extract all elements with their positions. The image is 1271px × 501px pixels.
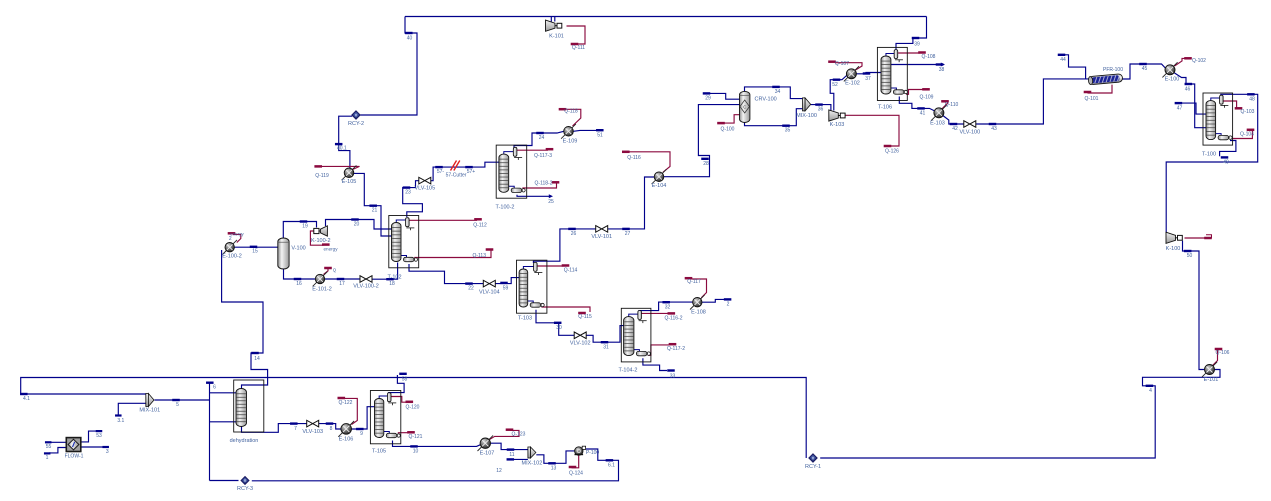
svg-text:Q-115: Q-115 — [578, 314, 592, 320]
svg-text:VLV-100-2: VLV-100-2 — [353, 284, 379, 290]
svg-text:E-101-2: E-101-2 — [312, 287, 332, 293]
svg-text:P-100: P-100 — [586, 450, 600, 456]
column dehydration — [234, 380, 264, 432]
heat-exchanger E-105 — [342, 165, 357, 180]
node 3.1 — [115, 414, 122, 416]
valve VLV-101 — [596, 226, 608, 233]
wire stream 45 PFR-100 to E-100 — [1122, 64, 1165, 79]
wire stream 37 E-102 to T-106 — [856, 73, 881, 74]
svg-text:E-100-2: E-100-2 — [222, 254, 242, 260]
svg-text:Q: Q — [333, 268, 337, 273]
svg-text:Q-101: Q-101 — [1085, 96, 1099, 102]
node 6 — [206, 382, 214, 384]
svg-text:11: 11 — [509, 452, 514, 458]
wire stream 31 VLV-102 to T-104-2 — [585, 326, 624, 343]
node 45 — [1139, 63, 1147, 65]
svg-text:9: 9 — [360, 431, 363, 437]
energy Q-117-2 T-104-2 reboiler — [648, 345, 669, 355]
svg-text:K-100: K-100 — [1166, 246, 1181, 252]
svg-text:dehydration: dehydration — [230, 438, 259, 444]
node 52 — [833, 79, 841, 81]
svg-text:Q-104: Q-104 — [1240, 131, 1254, 137]
mixer MIX-101 — [146, 394, 149, 407]
svg-text:Q-123: Q-123 — [512, 432, 526, 438]
heat-exchanger E-103 — [931, 105, 946, 120]
svg-text:Q-116-2: Q-116-2 — [665, 316, 683, 322]
node 16 — [294, 278, 302, 280]
node 42 — [950, 123, 958, 125]
svg-text:K-103: K-103 — [830, 122, 845, 128]
svg-text:30: 30 — [556, 325, 562, 331]
wire stream 38 T-106 side product — [891, 64, 943, 66]
svg-text:32: 32 — [665, 304, 671, 310]
wire stream 1 feed stub — [49, 448, 66, 453]
svg-text:1: 1 — [46, 455, 49, 461]
wire stream 47 feed to T-100 — [1182, 103, 1207, 114]
svg-text:K-100-2: K-100-2 — [311, 238, 331, 244]
node 21 — [369, 205, 377, 207]
svg-text:VLV-103: VLV-103 — [302, 429, 323, 435]
svg-text:T-100: T-100 — [1202, 151, 1216, 157]
energy Q-119 E-105 — [322, 166, 360, 170]
node 26 — [568, 228, 576, 230]
svg-text:MIX-102: MIX-102 — [522, 461, 543, 467]
svg-text:2: 2 — [727, 301, 730, 307]
svg-text:33: 33 — [670, 374, 676, 380]
mixer MIX-100 — [803, 98, 806, 111]
svg-text:E-102: E-102 — [845, 81, 860, 87]
svg-text:Q-106: Q-106 — [1216, 350, 1230, 356]
wire stream 41 T-106 bottoms to E-103 — [899, 97, 935, 112]
node 10 — [410, 445, 418, 447]
wire stream 52 K-103 to E-102 — [830, 76, 846, 111]
energy Q-111 K-101 — [567, 26, 586, 44]
node 5 — [172, 399, 180, 401]
svg-text:50: 50 — [1187, 253, 1193, 259]
svg-text:Q-107: Q-107 — [835, 61, 849, 67]
energy Q-100 CRV-100 — [724, 115, 740, 123]
wire stream 55 feed stub — [50, 441, 66, 443]
wire RCY-3 outlet — [210, 480, 239, 482]
node 51 — [596, 129, 604, 131]
svg-text:22: 22 — [468, 286, 474, 292]
svg-text:E-107: E-107 — [480, 451, 495, 457]
svg-text:RCY-2: RCY-2 — [348, 121, 364, 127]
energy Q-103 T-100 condenser — [1223, 101, 1237, 109]
svg-text:E-108: E-108 — [691, 310, 706, 316]
wire stream 11 E-107 to MIX-102 — [491, 443, 528, 449]
column T-104-2 — [621, 308, 651, 362]
svg-text:Q-102: Q-102 — [1192, 58, 1206, 64]
svg-text:43: 43 — [991, 126, 997, 132]
svg-text:18: 18 — [389, 281, 395, 287]
wire stream 28 E-104 to CRV-100 — [664, 105, 740, 177]
wire stream 59 VLV-104 to T-103 — [495, 278, 520, 284]
energy Q-124 P-100 — [572, 456, 579, 468]
svg-text:Q-103: Q-103 — [1241, 109, 1255, 115]
wire stream 4 E-101 to RCY-1 — [820, 370, 1220, 459]
node 40 — [405, 32, 413, 34]
column T-105 — [370, 391, 400, 444]
svg-text:48: 48 — [1249, 97, 1255, 103]
svg-text:Q-109: Q-109 — [920, 95, 934, 101]
wire stream 29 feed to CRV-100 — [708, 93, 740, 99]
energy Q-118 E-109 — [567, 109, 581, 126]
wire stream 17 E-101-2 to VLV-100-2 — [325, 278, 361, 280]
svg-text:Q-119: Q-119 — [315, 173, 329, 179]
wire stream 23 T-102 overhead to VLV-105 — [403, 181, 423, 217]
svg-text:E-104: E-104 — [652, 183, 667, 189]
energy Q-117-3 T-100-2 condenser — [516, 149, 548, 151]
energy Q-110 E-103 — [942, 102, 948, 109]
wire stream 48 T-100 overhead to K-100 — [1166, 94, 1258, 233]
node 44 — [1058, 54, 1066, 56]
valve VLV-100 — [964, 121, 976, 128]
column T-100 — [1203, 93, 1233, 145]
energy flag K-100 — [1185, 237, 1207, 239]
svg-text:Q-117: Q-117 — [687, 279, 701, 285]
wire stream 10 T-105 bottoms to E-107 — [393, 441, 481, 447]
svg-text:CRV-100: CRV-100 — [755, 97, 777, 103]
svg-text:36: 36 — [818, 107, 824, 113]
energy stream 2 E-100-2 — [233, 234, 241, 242]
svg-text:46: 46 — [1185, 87, 1191, 93]
svg-text:57+: 57+ — [467, 169, 476, 175]
node 12 — [507, 458, 515, 460]
svg-text:Q-124: Q-124 — [569, 471, 583, 477]
node 33 — [667, 369, 675, 371]
svg-text:T-100-2: T-100-2 — [496, 205, 515, 211]
node 20 — [351, 218, 359, 220]
svg-text:19: 19 — [302, 223, 308, 229]
svg-text:53: 53 — [96, 433, 102, 439]
energy Q-107 E-102 — [835, 63, 862, 70]
svg-text:E-103: E-103 — [930, 121, 945, 127]
node 50 — [1184, 250, 1192, 252]
svg-text:Q-120: Q-120 — [406, 405, 420, 411]
wire stream 2 E-108 outlet — [702, 299, 725, 302]
svg-text:Q-113: Q-113 — [472, 253, 486, 259]
svg-text:2: 2 — [229, 236, 232, 242]
svg-text:23: 23 — [405, 190, 411, 196]
wire E-105 outlet 21 to T-102 — [354, 173, 393, 236]
wire stream 16 V-100 to E-101-2 — [284, 268, 316, 279]
energy Q-109 T-106 reboiler — [906, 90, 925, 95]
svg-text:E-106: E-106 — [339, 437, 354, 443]
svg-text:E-109: E-109 — [563, 139, 578, 145]
wire streams 57- 57+ VLV-105 to T-100-2 — [430, 162, 499, 181]
svg-text:21: 21 — [372, 208, 378, 214]
svg-text:R: R — [244, 479, 247, 483]
wire stream 19 V-100 to K-100-2 — [283, 222, 316, 239]
pump P-100 — [575, 447, 583, 455]
node 40.1 — [335, 143, 343, 145]
svg-text:VLV-104: VLV-104 — [479, 289, 500, 295]
svg-text:14: 14 — [254, 356, 260, 362]
energy Q-102 E-100 — [1175, 58, 1185, 66]
svg-text:15: 15 — [252, 249, 258, 255]
energy Q-126 K-103 — [844, 115, 900, 146]
wire stream 25 T-100-2 bottoms — [517, 195, 550, 197]
svg-text:44: 44 — [1060, 57, 1066, 63]
heat-exchanger E-107 — [478, 435, 494, 451]
energy Q-106 E-101 — [1212, 350, 1217, 366]
node 47 — [1175, 102, 1183, 104]
node 38 — [936, 63, 944, 65]
energy Q-117 E-108 — [692, 279, 707, 298]
energy Q-118-2 T-100-2 reboiler — [522, 184, 556, 189]
svg-text:VLV-101: VLV-101 — [591, 234, 612, 240]
wire stream 33 T-104-2 bottoms product — [643, 358, 667, 370]
svg-text:3.1: 3.1 — [117, 418, 124, 424]
svg-text:R: R — [812, 457, 815, 461]
svg-text:V-100: V-100 — [291, 246, 305, 252]
wire RCY-2 outlet 40.1 to E-105 — [339, 116, 353, 168]
svg-text:E-100: E-100 — [1165, 76, 1180, 82]
node 1 — [44, 452, 51, 454]
svg-text:13: 13 — [551, 466, 557, 472]
svg-text:45: 45 — [1142, 66, 1148, 72]
wire stream 53 product stub — [81, 431, 98, 442]
heat-exchanger E-100 — [1162, 62, 1177, 77]
node 19 — [300, 220, 308, 222]
svg-text:26: 26 — [571, 231, 577, 237]
wire stream 40 top run K-101 to RCY-2 — [405, 16, 927, 18]
svg-text:52: 52 — [832, 82, 838, 88]
svg-text:Q-121: Q-121 — [409, 434, 423, 440]
wire stream 34 CRV-100 top to MIX-100 — [745, 87, 803, 99]
node 18 — [386, 278, 394, 280]
svg-text:Q-126: Q-126 — [885, 148, 899, 154]
node 27 — [622, 228, 630, 230]
wire stream 51 E-109 outlet — [573, 129, 601, 132]
node 57- — [435, 166, 443, 168]
node 2 — [724, 298, 732, 300]
node 8 — [326, 422, 334, 424]
valve VLV-104 — [483, 280, 495, 287]
svg-text:T-102: T-102 — [387, 274, 401, 280]
svg-text:47: 47 — [1177, 105, 1183, 111]
wire stream 27 VLV-101 to E-104 — [607, 177, 654, 229]
compressor K-101 — [546, 20, 556, 31]
node 55 — [45, 441, 52, 443]
heat-exchanger E-101 — [1202, 362, 1217, 377]
wire stream 3.1 feed to MIX-101 — [118, 403, 145, 415]
heat-exchanger E-108 — [690, 295, 705, 310]
reactor PFR-100 — [1088, 74, 1123, 85]
svg-text:10: 10 — [413, 449, 419, 455]
node 4 — [1146, 385, 1154, 387]
wire stream 30 T-103 bottoms to VLV-102 — [536, 310, 575, 336]
svg-text:Q-108: Q-108 — [922, 54, 936, 60]
node 23 — [403, 186, 411, 188]
heat-exchanger E-101-2 — [313, 272, 328, 287]
wire stream 46 E-100 to T-100 — [1174, 73, 1207, 128]
wire stream 15 E-100-2 to V-100 — [234, 246, 278, 248]
node 34 — [772, 86, 780, 88]
column T-103 — [517, 260, 547, 313]
svg-text:28: 28 — [703, 161, 709, 167]
node 9 — [356, 428, 364, 430]
svg-text:E-105: E-105 — [342, 179, 357, 185]
svg-text:T-104-2: T-104-2 — [619, 368, 638, 374]
energy Q-121 T-105 reboiler — [398, 432, 409, 434]
svg-text:25: 25 — [548, 199, 554, 205]
column T-100-2 — [496, 145, 527, 198]
wire stream 4.1 RCY-1 to MIX-101 — [21, 378, 807, 459]
node 39 — [912, 37, 920, 39]
energy Q-122 E-106 — [343, 398, 357, 424]
wire stream 39 into T-106 condenser — [896, 17, 927, 50]
wire stream 14 dehydration overhead to E-100-2 — [222, 250, 268, 390]
svg-text:Q-118-2: Q-118-2 — [535, 181, 553, 187]
energy Q-120 T-105 condenser — [391, 397, 407, 403]
svg-text:K-101: K-101 — [549, 34, 564, 40]
node 28 — [701, 158, 709, 160]
svg-text:Q-116: Q-116 — [627, 155, 641, 161]
wire stream 6.1 P-100 to RCY-3 — [252, 449, 619, 481]
svg-text:Q-100: Q-100 — [721, 126, 735, 132]
svg-text:35: 35 — [785, 128, 791, 134]
svg-text:40: 40 — [407, 36, 413, 42]
node 58 — [399, 373, 407, 375]
compressor K-100-2 — [314, 228, 319, 233]
energy Q-104 T-100 reboiler — [1230, 131, 1253, 139]
energy Q-116-2 T-104-2 condenser — [641, 312, 668, 314]
svg-text:24: 24 — [539, 135, 545, 141]
energy Q-116 E-104 — [629, 152, 670, 172]
svg-text:5: 5 — [176, 402, 179, 408]
mixer MIX-102 — [528, 447, 531, 458]
svg-text:29: 29 — [705, 95, 711, 101]
node 35 — [782, 125, 790, 127]
node 53 — [96, 430, 103, 432]
svg-text:PFR-100: PFR-100 — [1103, 67, 1123, 73]
node 15 — [250, 246, 258, 248]
svg-text:FLOW-1: FLOW-1 — [65, 453, 84, 459]
wire stream 6 dehydration vertical and feeds — [210, 383, 237, 481]
wire stream 5 MIX-101 to dehydration — [155, 399, 210, 401]
svg-text:40.1: 40.1 — [337, 146, 347, 152]
node 29 — [703, 92, 711, 94]
wire stream 3 product stub — [81, 446, 104, 448]
svg-text:VLV-100: VLV-100 — [959, 129, 980, 135]
svg-text:Q-114: Q-114 — [564, 267, 578, 273]
svg-text:Q-122: Q-122 — [339, 400, 353, 406]
heat-exchanger E-102 — [844, 66, 859, 81]
svg-text:T-103: T-103 — [518, 316, 532, 322]
node 3 — [102, 446, 109, 448]
valve VLV-103 — [307, 420, 319, 427]
node 37 — [863, 72, 871, 74]
node 43 — [989, 123, 997, 125]
svg-text:57-Cutter: 57-Cutter — [446, 173, 467, 179]
svg-text:17: 17 — [339, 281, 345, 287]
node 22 — [465, 282, 473, 284]
svg-text:C: C — [743, 105, 746, 110]
svg-text:7: 7 — [294, 426, 297, 432]
svg-text:RCY-3: RCY-3 — [237, 486, 253, 492]
svg-text:3: 3 — [106, 449, 109, 455]
wire stream 50 K-100 to E-101 — [1183, 241, 1205, 370]
balance FLOW-1 — [66, 438, 81, 452]
reactor CRV-100 — [739, 91, 749, 122]
svg-text:42: 42 — [952, 126, 958, 132]
wire stream 43 VLV-100 to PFR-100 — [975, 79, 1089, 124]
svg-text:RCY-1: RCY-1 — [805, 464, 821, 470]
wire stream 7 dehydration bottoms to VLV-103 — [242, 424, 308, 433]
svg-text:57-: 57- — [437, 169, 445, 175]
node 48 — [1247, 93, 1255, 95]
wire stream 44 feed to PFR-100 — [1062, 55, 1086, 79]
energy Q-108 T-106 condenser — [898, 52, 920, 54]
node 24 — [536, 132, 544, 134]
wire stream 22 T-102 bottoms to VLV-104 — [409, 264, 484, 284]
compressor K-100 — [1166, 232, 1176, 243]
recycle RCY-1 — [809, 454, 817, 462]
valve VLV-100-2 — [360, 276, 372, 283]
wire stream 42 E-103 to VLV-100 — [943, 116, 965, 125]
column T-102 — [389, 216, 419, 268]
node 59 — [500, 282, 508, 284]
wire stream 58 T-105 overhead stub — [389, 375, 404, 396]
wire stream 12 feed to MIX-102 — [510, 458, 528, 460]
svg-text:39: 39 — [914, 42, 920, 48]
valve VLV-102 — [574, 332, 586, 339]
svg-text:VLV-102: VLV-102 — [570, 340, 591, 346]
svg-text:37: 37 — [865, 76, 871, 82]
energy Q-101 PFR-100 — [1088, 85, 1113, 93]
svg-text:8: 8 — [330, 426, 333, 432]
heat-exchanger E-109 — [561, 124, 576, 139]
wire stream 49 T-100 bottoms product — [1220, 141, 1236, 157]
energy flag E-101-2 — [324, 269, 329, 275]
separator V-100 — [278, 238, 289, 269]
svg-text:VLV-105: VLV-105 — [414, 186, 435, 192]
wire stream 9 E-106 to T-105 — [352, 407, 375, 429]
node 30 — [554, 322, 562, 324]
node 17 — [337, 278, 345, 280]
svg-text:4.1: 4.1 — [23, 396, 30, 402]
node 32 — [662, 301, 670, 303]
node 41 — [917, 107, 925, 109]
svg-text:T-106: T-106 — [878, 104, 892, 110]
svg-text:Q-117-2: Q-117-2 — [667, 346, 685, 352]
svg-text:Q-117-3: Q-117-3 — [534, 153, 552, 159]
svg-text:49: 49 — [1223, 160, 1229, 166]
compressor K-103 — [829, 110, 839, 121]
svg-text:58: 58 — [402, 377, 408, 383]
energy Q-112 T-102 condenser — [409, 219, 477, 221]
heat-exchanger E-100-2 — [222, 240, 237, 255]
wire stream 8 VLV-103 to E-106 — [318, 424, 341, 429]
svg-text:energy: energy — [323, 246, 338, 251]
svg-text:12: 12 — [496, 468, 502, 474]
node 49 — [1221, 156, 1229, 158]
wire stream 20 K-100-2 to T-102 — [326, 220, 393, 230]
svg-text:Q-118: Q-118 — [564, 109, 578, 115]
heat-exchanger E-104 — [652, 169, 667, 184]
wire stream 18 VLV-100-2 to T-102 — [371, 263, 397, 280]
svg-text:27: 27 — [625, 231, 631, 237]
svg-text:34: 34 — [775, 89, 781, 95]
wire stream 36 MIX-100 to K-103 — [811, 105, 831, 112]
svg-text:51: 51 — [597, 132, 603, 138]
node 14 — [251, 352, 259, 354]
node 31 — [601, 341, 609, 343]
svg-text:4: 4 — [1149, 388, 1152, 394]
wire stream 26 T-103 overhead to VLV-101 — [533, 229, 596, 263]
